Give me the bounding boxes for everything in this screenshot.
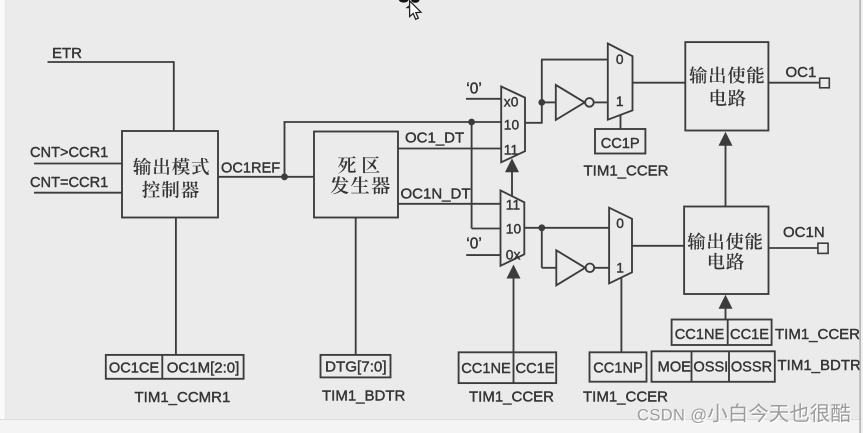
wire CNT=CCR1 [34, 192, 122, 194]
register CC1NP [590, 352, 647, 381]
svg-text:1: 1 [616, 94, 624, 109]
wire M4 output [632, 245, 684, 247]
register CC1P [595, 129, 645, 154]
register CC1NE CC1E upper [672, 320, 772, 346]
svg-text:TIM1_CCMR1: TIM1_CCMR1 [135, 389, 231, 406]
svg-text:CC1E: CC1E [730, 327, 769, 343]
node bypass junction [468, 119, 475, 126]
svg-text:x0: x0 [504, 94, 519, 109]
label CC1NE CC1E upper [675, 327, 769, 343]
svg-text:OC1REF: OC1REF [221, 161, 280, 177]
wire M1 output [525, 102, 542, 123]
block U3 output enable [685, 42, 768, 130]
label TIM1_BDTR bottom [322, 388, 406, 405]
label U3 text [689, 66, 764, 106]
wire const 0 upper [466, 98, 501, 100]
mux M4 [609, 208, 632, 284]
svg-text:0x: 0x [506, 247, 521, 262]
label TIM1_CCER upper [584, 163, 669, 180]
wire M4 select [620, 278, 622, 353]
svg-text:CC1E: CC1E [516, 361, 555, 377]
svg-text:10: 10 [506, 222, 522, 237]
label CC1NE CC1E lower [461, 361, 554, 377]
svg-text:OC1M[2:0]: OC1M[2:0] [167, 360, 240, 377]
svg-text:TIM1_CCER: TIM1_CCER [469, 389, 554, 406]
watermark [637, 403, 851, 425]
wire const 0 lower [466, 254, 500, 256]
wire OC1REF [218, 176, 314, 178]
svg-text:0: 0 [616, 216, 624, 231]
svg-text:11: 11 [506, 198, 520, 213]
pin OC1 pad [820, 78, 830, 88]
label OC1_DT [405, 130, 464, 147]
wire to mux M2 input 0 [541, 60, 608, 104]
mux M3 [501, 190, 525, 265]
label OC1CE OC1M [109, 360, 239, 377]
wire OC1REF bypass up [284, 121, 502, 177]
label DTG [325, 359, 387, 376]
svg-text:1: 1 [616, 260, 624, 275]
svg-text:TIM1_CCER: TIM1_CCER [583, 389, 668, 406]
wire OC1 [768, 82, 819, 84]
wire U4 enable arrow [719, 295, 733, 320]
label M2 inputs [616, 52, 624, 109]
wire OC1N [769, 247, 818, 249]
cursor [406, 1, 421, 20]
svg-text:0: 0 [616, 52, 624, 67]
register CC1NE CC1E lower [459, 352, 557, 383]
wire M2 output [633, 82, 686, 84]
pin OC1N pad [818, 243, 828, 253]
svg-text:TIM1_BDTR: TIM1_BDTR [322, 388, 406, 405]
svg-text:ETR: ETR [52, 45, 82, 62]
label TIM1_CCMR1 [135, 389, 231, 406]
block U4 output enable [684, 207, 768, 295]
node M1 out junction [538, 99, 545, 106]
svg-text:OC1N_DT: OC1N_DT [401, 185, 471, 202]
label M1 inputs [504, 94, 520, 157]
register DTG [321, 355, 391, 378]
register MOE OSSI OSSR [652, 351, 775, 382]
svg-text:CC1NP: CC1NP [593, 361, 642, 377]
wire U2 to DTG [355, 218, 357, 355]
label OC1 [786, 64, 817, 81]
label CNT=CCR1 [30, 175, 108, 191]
label TIM1_BDTR right [778, 357, 862, 374]
svg-text:11: 11 [504, 143, 518, 158]
label const 0 lower [466, 236, 482, 253]
label CNT>CCR1 [30, 145, 108, 161]
svg-text:MOE: MOE [658, 360, 692, 376]
label ETR [52, 45, 82, 62]
svg-text:CSDN @: CSDN @ [637, 406, 708, 424]
wire U3 enable arrow [719, 132, 733, 207]
mux M2 [608, 44, 633, 120]
node OC1REF junction [281, 173, 288, 180]
svg-text:CC1P: CC1P [601, 136, 640, 152]
inverter G2 [556, 250, 594, 285]
svg-text:TIM1_CCER: TIM1_CCER [775, 326, 860, 343]
label U2 text [331, 156, 390, 194]
svg-text:‘0’: ‘0’ [466, 80, 482, 97]
svg-text:‘0’: ‘0’ [466, 236, 482, 253]
svg-text:TIM1_CCER: TIM1_CCER [584, 163, 669, 180]
wire OC1_DT [398, 148, 501, 150]
label U4 text [687, 233, 762, 270]
svg-text:OC1N: OC1N [783, 224, 825, 241]
wire to mux M4 input 0 [541, 227, 609, 229]
label const 0 upper [466, 80, 482, 97]
svg-text:OSSR: OSSR [731, 360, 772, 376]
wire M3 output [524, 227, 542, 229]
wire ETR [48, 61, 174, 131]
svg-text:CC1NE: CC1NE [675, 327, 725, 343]
wire M2 select [620, 115, 622, 129]
block U1 output mode controller [122, 131, 218, 218]
block U2 dead-time generator [314, 132, 398, 218]
wire M1 select arrow [505, 158, 519, 196]
label TIM1_CCER bottom left [469, 389, 554, 406]
wire CNT>CCR1 [34, 163, 122, 165]
label CC1NP [593, 361, 642, 377]
svg-text:OC1_DT: OC1_DT [405, 130, 464, 147]
wire U1 to OC1CE [175, 218, 177, 355]
svg-text:CNT=CCR1: CNT=CCR1 [30, 175, 108, 191]
label MOE OSSI OSSR [658, 360, 773, 376]
svg-text:OC1CE: OC1CE [109, 361, 160, 377]
svg-text:TIM1_BDTR: TIM1_BDTR [778, 357, 862, 374]
label U1 text [133, 158, 209, 198]
wire to inverter G2 [542, 228, 557, 268]
svg-text:OC1: OC1 [786, 64, 817, 81]
svg-text:10: 10 [504, 117, 520, 132]
wire to inverter G1 [542, 101, 556, 103]
wire M3 select arrow [507, 265, 521, 353]
label M3 inputs [506, 198, 522, 263]
wire G2 to M4 [594, 267, 609, 269]
ui fragment top [399, 0, 420, 3]
svg-text:DTG[7:0]: DTG[7:0] [325, 359, 387, 376]
label TIM1_CCER right upper [775, 326, 860, 343]
label TIM1_CCER bottom mid [583, 389, 668, 406]
wire G1 to M2 [594, 101, 608, 103]
mux M1 [501, 87, 525, 163]
svg-text:CC1NE: CC1NE [461, 361, 511, 377]
register OC1CE OC1M [106, 355, 244, 379]
svg-text:CNT>CCR1: CNT>CCR1 [30, 145, 108, 161]
right border [860, 0, 863, 433]
node M3 out junction [538, 224, 545, 231]
label M4 inputs [616, 216, 624, 275]
inverter G1 [556, 85, 594, 120]
wire bypass down to lower mux [472, 122, 501, 229]
wire OC1N_DT [398, 203, 501, 205]
label OC1REF [221, 161, 280, 177]
label OC1N [783, 224, 825, 241]
svg-text:OSSI: OSSI [693, 360, 728, 376]
label OC1N_DT [401, 185, 471, 202]
label CC1P [601, 136, 640, 152]
